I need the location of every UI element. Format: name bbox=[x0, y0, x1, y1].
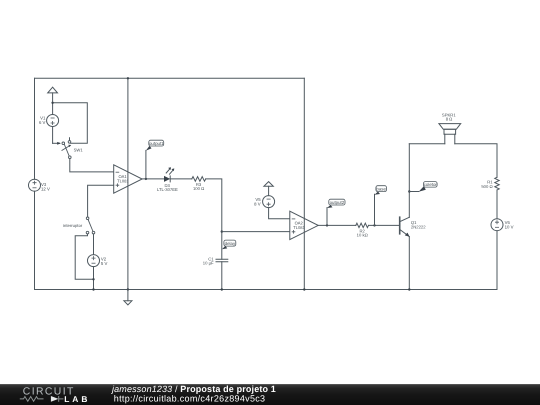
node junction top rail / OA1 V+ bbox=[127, 77, 129, 79]
node junction output2 branch bbox=[326, 224, 328, 226]
node junction delay branch bbox=[221, 230, 223, 232]
resistor R2 bbox=[356, 223, 369, 238]
wire SW1 to OA1 inverting input bbox=[70, 159, 114, 172]
node junction C1 rail bbox=[221, 288, 223, 290]
wire R1 to V6 bbox=[496, 190, 498, 219]
net flag output2 bbox=[327, 199, 345, 225]
wire left rail upper bbox=[34, 78, 36, 179]
svg-text:10 kΩ: 10 kΩ bbox=[357, 233, 368, 238]
node junction V2 loop bbox=[92, 278, 94, 280]
wire V5 top stem bbox=[268, 186, 270, 195]
node junction coletor flag bbox=[408, 190, 410, 192]
svg-text:12 V: 12 V bbox=[41, 187, 50, 192]
wire V1 bottom stem bbox=[52, 127, 54, 144]
svg-text:100 Ω: 100 Ω bbox=[193, 186, 204, 191]
op-amp OA2 bbox=[290, 211, 318, 239]
svg-text:LTL-307EE: LTL-307EE bbox=[157, 187, 178, 192]
LED D3 bbox=[157, 167, 178, 192]
wire speaker left to collector bbox=[409, 143, 445, 145]
CircuitLab logo wordmark bbox=[23, 387, 75, 398]
wire LED to R3 bbox=[170, 178, 192, 180]
CircuitLab logo resistor-diode glyph bbox=[20, 396, 64, 402]
svg-text:10 V: 10 V bbox=[505, 225, 514, 230]
svg-text:2N2222: 2N2222 bbox=[411, 225, 426, 230]
svg-text:8 V: 8 V bbox=[254, 201, 261, 206]
op-amp OA1 bbox=[114, 165, 142, 193]
voltage source V1 bbox=[39, 115, 59, 127]
wire V1 loop (top and right of SW1) bbox=[53, 103, 88, 144]
wire delay node to OA2 noninverting input bbox=[222, 231, 290, 233]
resistor R1 bbox=[481, 177, 499, 190]
footer title text bbox=[111, 384, 276, 404]
svg-text:TL081: TL081 bbox=[293, 225, 305, 230]
svg-text:500 Ω: 500 Ω bbox=[481, 184, 492, 189]
svg-text:delay: delay bbox=[225, 241, 236, 246]
wire OA1 power vertical bbox=[127, 78, 129, 289]
CircuitLab logo LAB text bbox=[64, 394, 90, 404]
node junction bottom rail / OA2 V- bbox=[303, 288, 305, 290]
wire V6 to rail bbox=[496, 231, 498, 290]
wire V1 top stem bbox=[52, 93, 54, 115]
svg-text:output1: output1 bbox=[149, 141, 164, 146]
svg-text:coletor: coletor bbox=[424, 182, 438, 187]
node junction V1 loop branch bbox=[51, 102, 53, 104]
voltage source V5 bbox=[254, 196, 274, 208]
svg-text:8 Ω: 8 Ω bbox=[446, 117, 453, 122]
voltage source V2 bbox=[88, 255, 108, 267]
net flag output1 bbox=[146, 140, 164, 179]
net flag delay bbox=[222, 240, 236, 249]
wire top rail bbox=[35, 77, 305, 79]
wire V5 to OA2 inverting input bbox=[269, 208, 290, 219]
voltage source V6 bbox=[491, 219, 514, 231]
speaker SPKR1 bbox=[439, 112, 461, 143]
node junction bottom rail / OA1 V- bbox=[127, 288, 129, 290]
wire Q1 collector up bbox=[408, 144, 410, 218]
wire OA1 noninverting input from interruptor bbox=[88, 185, 114, 217]
svg-text:6 V: 6 V bbox=[39, 120, 46, 125]
transistor Q1 bbox=[400, 217, 427, 237]
svg-text:http://circuitlab.com/c4r26z89: http://circuitlab.com/c4r26z894v5c3 bbox=[114, 394, 266, 404]
svg-text:5 V: 5 V bbox=[101, 261, 108, 266]
svg-text:output2: output2 bbox=[330, 200, 345, 205]
wire V2 bottom to rail bbox=[93, 267, 95, 290]
node junction V2 rail bbox=[92, 288, 94, 290]
wire bottom rail bbox=[35, 289, 498, 291]
resistor R3 bbox=[192, 177, 206, 192]
svg-text:jamesson1233 / Proposta de pro: jamesson1233 / Proposta de projeto 1 bbox=[111, 384, 276, 394]
svg-text:interruptor: interruptor bbox=[63, 223, 83, 228]
wire interruptor left loop bbox=[75, 234, 93, 279]
svg-text:LAB: LAB bbox=[64, 394, 90, 404]
wire left rail lower bbox=[34, 191, 36, 289]
wire R3 to delay node bbox=[206, 179, 222, 259]
wire R2 to Q1 base bbox=[369, 224, 400, 226]
voltage source V3 bbox=[29, 179, 50, 192]
wire OA2 output bbox=[318, 224, 356, 226]
wire SW1 common bbox=[53, 142, 60, 144]
switch SW1 bbox=[57, 138, 83, 159]
svg-text:10 µF: 10 µF bbox=[203, 261, 214, 266]
wire Q1 emitter to rail bbox=[408, 237, 410, 290]
svg-text:base: base bbox=[376, 187, 386, 192]
wire OA2 power vertical bbox=[303, 78, 305, 289]
net flag coletor bbox=[409, 182, 437, 192]
node junction emitter rail bbox=[408, 288, 410, 290]
power flag VCC above V5 bbox=[264, 182, 273, 187]
footer bar bbox=[0, 384, 540, 405]
node junction base branch bbox=[373, 224, 375, 226]
switch interruptor bbox=[63, 217, 95, 234]
ground bbox=[124, 290, 132, 305]
net flag base bbox=[375, 186, 387, 226]
wire speaker right to R1 bbox=[455, 144, 497, 178]
svg-text:SW1: SW1 bbox=[74, 147, 84, 152]
wire interruptor right throw to V2 bbox=[93, 234, 95, 255]
node junction OA1 output bbox=[145, 178, 147, 180]
wire C1 to rail bbox=[221, 262, 223, 290]
capacitor C1 bbox=[203, 256, 228, 265]
power flag VCC above V1 bbox=[48, 87, 58, 93]
wire OA1 output bbox=[142, 178, 164, 180]
